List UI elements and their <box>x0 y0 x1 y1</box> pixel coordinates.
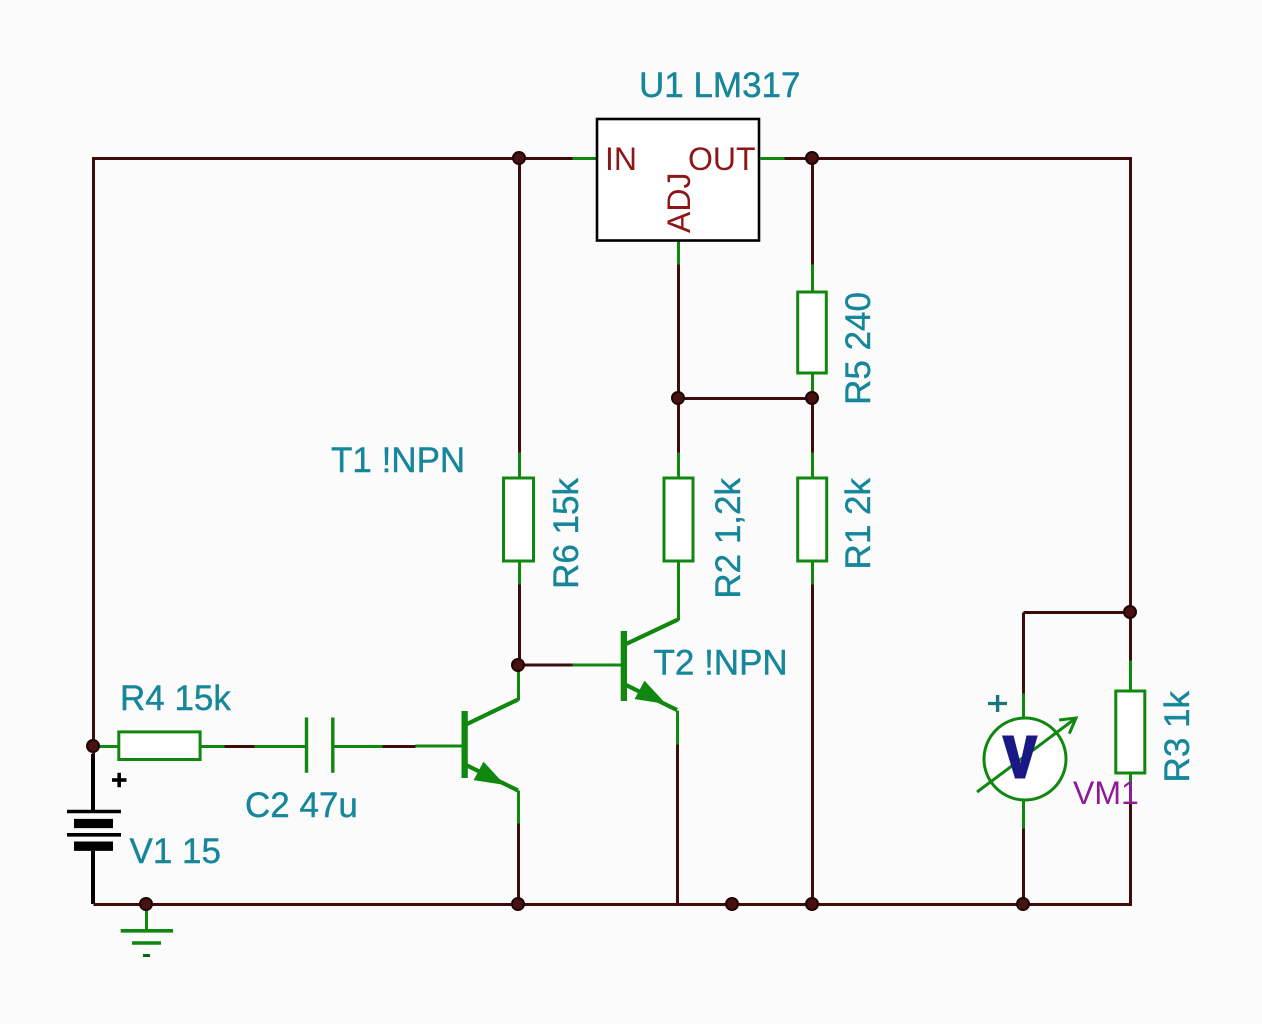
svg-text:R4 15k: R4 15k <box>120 679 231 718</box>
svg-text:OUT: OUT <box>688 141 756 177</box>
svg-text:R5 240: R5 240 <box>839 292 878 405</box>
svg-text:R2 1,2k: R2 1,2k <box>709 478 748 599</box>
svg-text:IN: IN <box>605 141 637 177</box>
svg-text:T2 !NPN: T2 !NPN <box>654 644 788 683</box>
svg-text:R6 15k: R6 15k <box>547 478 586 589</box>
svg-text:R1 2k: R1 2k <box>839 478 878 570</box>
svg-text:R3 1k: R3 1k <box>1158 691 1197 783</box>
svg-text:U1 LM317: U1 LM317 <box>639 66 800 105</box>
svg-text:V1 15: V1 15 <box>130 832 221 871</box>
svg-text:T1 !NPN: T1 !NPN <box>331 441 465 480</box>
svg-text:ADJ: ADJ <box>661 173 697 233</box>
svg-text:VM1: VM1 <box>1073 775 1139 811</box>
svg-text:C2 47u: C2 47u <box>245 786 358 825</box>
